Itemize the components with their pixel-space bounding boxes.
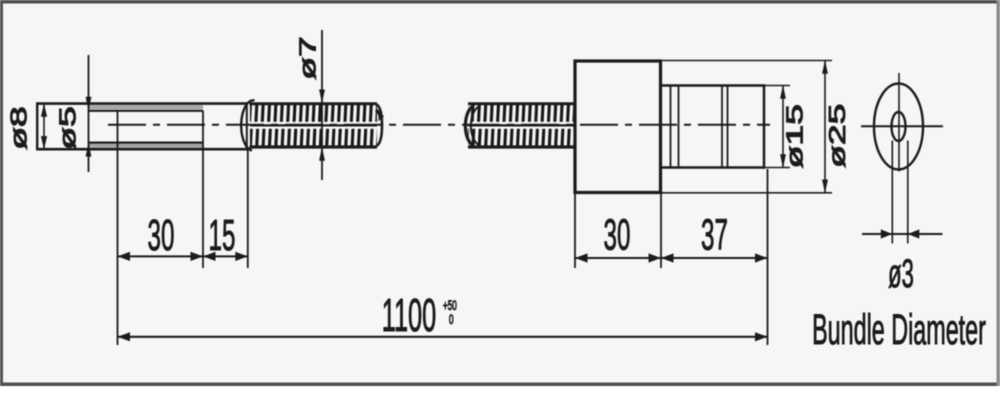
svg-text:37: 37 [701, 210, 728, 260]
frame border left [0, 0, 3, 386]
main centerline (dash-dot axis) [108, 124, 770, 126]
dimension ø5 [55, 55, 92, 172]
end view horizontal centerline [861, 125, 943, 127]
dimension ø3 [862, 141, 943, 296]
probe tube body ø8 (left) [36, 102, 248, 150]
tube wall shading top [89, 105, 203, 109]
dimension ø15 [765, 85, 808, 169]
end view bundle circle ø3 [892, 112, 906, 141]
svg-text:Bundle Diameter: Bundle Diameter [812, 307, 986, 354]
tube outer top edge [36, 102, 248, 105]
tube right end edge [246, 102, 248, 150]
nose groove line 4 [727, 86, 729, 168]
nose groove line 3 [721, 86, 723, 168]
svg-text:ø7: ø7 [295, 36, 321, 79]
svg-text:+50: +50 [443, 299, 457, 314]
svg-text:ø8: ø8 [6, 106, 32, 149]
tube wall shading bottom [89, 144, 203, 148]
extension line at x=661 (30/37 boundary) [660, 194, 662, 268]
conduit B start cap [465, 106, 474, 147]
end view vertical centerline [898, 73, 900, 172]
svg-text:ø3: ø3 [888, 251, 914, 296]
svg-text:30: 30 [148, 210, 175, 260]
svg-text:15: 15 [209, 210, 236, 260]
dimension ø7 [295, 30, 325, 180]
flexible conduit segment A [241, 100, 384, 150]
dimension 37 [661, 210, 768, 263]
dimension 1100 +50/0 [118, 289, 768, 342]
svg-text:ø15: ø15 [782, 104, 808, 168]
frame border right [997, 0, 1000, 386]
nose groove line 2 [678, 86, 680, 168]
extension line at x=247.8 (end of 15 dim) [247, 150, 249, 268]
svg-text:ø5: ø5 [55, 106, 81, 149]
extension line at x=117.5 (start of 30 and 1100 dims) [117, 111, 119, 345]
fiber core line top (ø5) [89, 110, 203, 112]
dimension ø8 [6, 103, 47, 150]
tube left end edge [36, 102, 38, 150]
dimension 30 (right) [575, 210, 661, 263]
svg-text:1100: 1100 [382, 289, 436, 341]
connector body ø25 block [575, 61, 661, 193]
svg-text:0: 0 [449, 313, 454, 328]
extension line at x=575 (left of right 30 dim) [574, 194, 576, 268]
label Bundle Diameter [812, 307, 986, 354]
extension line at x=203 (end of 30 dim) [202, 111, 204, 268]
conduit A end cap [377, 105, 383, 146]
tube outer bottom edge [36, 148, 248, 151]
connector nose ø15 [661, 84, 764, 168]
nose bottom edge [661, 166, 764, 169]
end view outer circle [874, 84, 923, 170]
fiber core line bottom (ø5) [89, 142, 203, 144]
frame border bottom [0, 383, 1000, 387]
dimension 15 [203, 210, 248, 261]
frame border top [0, 0, 1000, 4]
nose right end edge [763, 84, 766, 168]
dimension ø25 [660, 60, 850, 194]
dimension 30 (left) [118, 210, 204, 261]
flexible conduit segment B [465, 104, 574, 147]
nose groove line 1 [670, 86, 672, 168]
svg-text:30: 30 [604, 210, 631, 260]
svg-text:ø25: ø25 [824, 104, 850, 168]
nose top edge [661, 84, 764, 87]
extension line at x=767.5 (end of 37 and 1100 dims) [767, 169, 769, 345]
